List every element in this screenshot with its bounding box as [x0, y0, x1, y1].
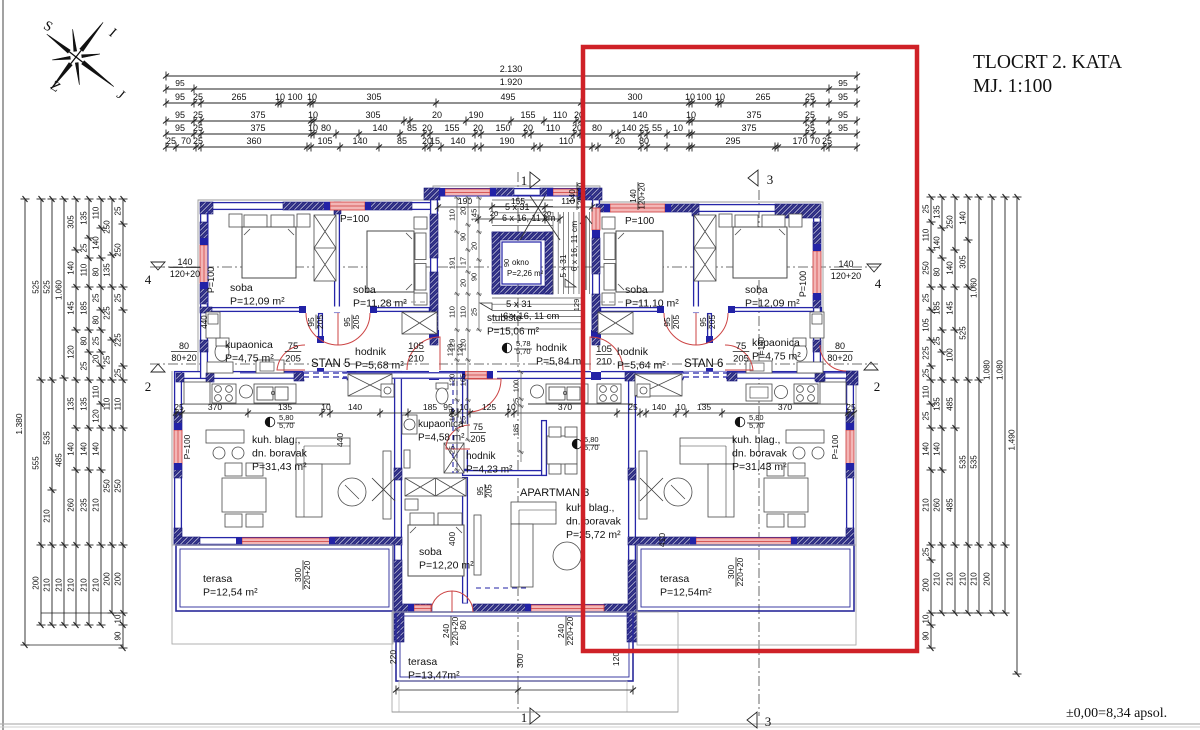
svg-text:P=100: P=100	[206, 267, 216, 293]
svg-text:410: 410	[657, 533, 667, 547]
svg-text:295: 295	[725, 136, 740, 146]
svg-text:375: 375	[746, 110, 761, 120]
svg-text:10: 10	[308, 110, 318, 120]
svg-text:135: 135	[278, 402, 292, 412]
svg-text:185: 185	[448, 409, 457, 422]
svg-text:440: 440	[335, 433, 345, 447]
svg-text:5,70: 5,70	[749, 421, 764, 430]
svg-text:25: 25	[922, 293, 931, 302]
svg-text:terasa: terasa	[408, 656, 437, 668]
svg-text:125: 125	[482, 402, 496, 412]
svg-text:P=4,58 m²: P=4,58 m²	[418, 433, 465, 444]
svg-text:250: 250	[103, 220, 112, 234]
svg-text:P=12,54m²: P=12,54m²	[660, 587, 712, 599]
svg-text:140: 140	[838, 259, 853, 269]
svg-text:1.920: 1.920	[500, 77, 523, 87]
svg-text:P=4,23 m²: P=4,23 m²	[466, 465, 513, 476]
svg-text:dn. boravak: dn. boravak	[732, 448, 788, 460]
svg-text:300: 300	[515, 654, 525, 668]
svg-text:kuh. blag.,: kuh. blag.,	[252, 434, 300, 446]
svg-text:535: 535	[959, 455, 968, 469]
svg-text:±0,00=8,34 apsol.: ±0,00=8,34 apsol.	[1066, 706, 1167, 721]
svg-text:2.130: 2.130	[500, 64, 523, 74]
svg-text:525: 525	[32, 280, 41, 294]
svg-text:25: 25	[114, 368, 123, 377]
svg-text:210: 210	[55, 578, 64, 592]
svg-text:1: 1	[521, 173, 528, 188]
svg-text:soba: soba	[625, 284, 648, 296]
svg-text:okno: okno	[512, 258, 530, 267]
svg-text:25: 25	[922, 204, 931, 213]
svg-text:P=31,43 m²: P=31,43 m²	[732, 461, 787, 473]
svg-text:85: 85	[407, 123, 417, 133]
svg-text:25: 25	[103, 355, 112, 364]
svg-text:265: 265	[231, 92, 246, 102]
svg-text:P=25,72 m²: P=25,72 m²	[566, 529, 621, 541]
svg-text:90: 90	[459, 233, 468, 241]
svg-text:305: 305	[366, 92, 381, 102]
svg-text:360: 360	[246, 136, 261, 146]
svg-text:485: 485	[946, 397, 955, 411]
svg-text:185: 185	[512, 424, 521, 437]
svg-text:200: 200	[983, 572, 992, 586]
svg-text:90: 90	[922, 631, 931, 640]
svg-text:220: 220	[388, 650, 398, 664]
svg-text:hodnik: hodnik	[617, 346, 649, 358]
svg-text:1.080: 1.080	[996, 359, 1005, 380]
svg-text:100: 100	[512, 380, 521, 393]
svg-text:145: 145	[946, 301, 955, 315]
svg-text:90: 90	[502, 259, 511, 267]
svg-text:10: 10	[673, 123, 683, 133]
svg-text:165: 165	[459, 374, 468, 387]
svg-text:140: 140	[177, 257, 192, 267]
svg-text:80: 80	[92, 315, 101, 324]
svg-text:5,70: 5,70	[279, 421, 294, 430]
svg-text:25: 25	[933, 336, 942, 345]
svg-text:300: 300	[627, 92, 642, 102]
svg-text:95: 95	[175, 78, 185, 88]
svg-text:P=5,64 m²: P=5,64 m²	[617, 360, 666, 372]
svg-text:190: 190	[499, 136, 514, 146]
svg-text:20: 20	[459, 207, 468, 215]
svg-text:105: 105	[408, 341, 424, 352]
svg-text:75: 75	[288, 341, 299, 352]
svg-text:210: 210	[933, 572, 942, 586]
svg-text:250: 250	[946, 215, 955, 229]
svg-text:305: 305	[365, 110, 380, 120]
svg-text:265: 265	[755, 92, 770, 102]
svg-text:APARTMAN 3: APARTMAN 3	[520, 487, 589, 499]
svg-text:170: 170	[792, 136, 807, 146]
svg-text:STAN 6: STAN 6	[684, 358, 723, 370]
svg-text:MJ. 1:100: MJ. 1:100	[973, 76, 1052, 97]
svg-text:20: 20	[523, 123, 533, 133]
svg-text:25: 25	[193, 123, 203, 133]
svg-text:110: 110	[92, 385, 101, 398]
svg-text:17: 17	[459, 257, 468, 265]
svg-text:250: 250	[114, 479, 123, 493]
svg-text:95: 95	[175, 92, 185, 102]
svg-text:140: 140	[632, 110, 647, 120]
svg-text:25: 25	[639, 123, 649, 133]
svg-text:135: 135	[933, 397, 942, 411]
svg-text:25: 25	[805, 92, 815, 102]
svg-text:110: 110	[103, 397, 112, 410]
svg-text:25: 25	[92, 336, 101, 345]
svg-text:10: 10	[922, 614, 931, 623]
svg-text:205: 205	[707, 315, 717, 329]
svg-text:100: 100	[696, 92, 711, 102]
svg-text:5,70: 5,70	[584, 443, 599, 452]
svg-text:120: 120	[456, 344, 465, 357]
svg-text:220+20: 220+20	[302, 560, 312, 589]
svg-text:10: 10	[686, 110, 696, 120]
svg-text:25: 25	[846, 402, 856, 412]
svg-text:110: 110	[459, 306, 468, 318]
svg-text:110: 110	[448, 306, 457, 318]
svg-text:5 x 31: 5 x 31	[558, 254, 568, 277]
svg-text:hodnik: hodnik	[355, 346, 387, 358]
svg-text:145: 145	[67, 301, 76, 315]
svg-text:225: 225	[922, 346, 931, 360]
svg-text:85: 85	[397, 136, 407, 146]
svg-text:135: 135	[80, 211, 89, 225]
svg-text:185: 185	[80, 301, 89, 315]
svg-text:185: 185	[423, 402, 437, 412]
svg-text:25: 25	[470, 308, 479, 316]
svg-text:80: 80	[92, 267, 101, 276]
svg-text:25: 25	[114, 206, 123, 215]
svg-text:110: 110	[922, 228, 931, 241]
svg-text:205: 205	[470, 434, 485, 444]
svg-text:135: 135	[80, 397, 89, 411]
svg-text:5 x 31: 5 x 31	[506, 299, 532, 310]
svg-text:hodnik: hodnik	[466, 451, 496, 462]
svg-text:140: 140	[933, 442, 942, 456]
svg-text:10: 10	[676, 402, 686, 412]
svg-text:P=100: P=100	[625, 216, 655, 227]
svg-text:485: 485	[55, 453, 64, 467]
svg-text:20: 20	[473, 123, 483, 133]
svg-text:25: 25	[193, 92, 203, 102]
svg-text:2: 2	[874, 379, 881, 394]
svg-text:80: 80	[639, 136, 649, 146]
svg-text:TLOCRT 2. KATA: TLOCRT 2. KATA	[973, 52, 1122, 73]
svg-text:375: 375	[741, 123, 756, 133]
svg-text:1.490: 1.490	[1007, 429, 1017, 451]
svg-text:1.380: 1.380	[14, 413, 24, 435]
svg-text:70: 70	[181, 136, 191, 146]
svg-text:25: 25	[193, 136, 203, 146]
svg-text:140: 140	[372, 123, 387, 133]
svg-text:135: 135	[103, 263, 112, 277]
svg-text:140: 140	[621, 123, 636, 133]
svg-text:210: 210	[959, 572, 968, 586]
svg-text:200: 200	[103, 572, 112, 586]
svg-text:140: 140	[67, 261, 76, 275]
svg-text:155: 155	[511, 196, 525, 206]
svg-text:110: 110	[553, 110, 567, 120]
svg-text:3: 3	[765, 714, 772, 729]
svg-text:80: 80	[80, 336, 89, 345]
svg-text:140: 140	[959, 211, 968, 225]
svg-text:P=2,26 m²: P=2,26 m²	[507, 269, 544, 278]
svg-text:140: 140	[450, 136, 465, 146]
svg-text:25: 25	[512, 398, 521, 406]
svg-text:185: 185	[933, 301, 942, 315]
svg-text:105: 105	[596, 344, 612, 355]
svg-text:95: 95	[838, 123, 848, 133]
svg-text:hodnik: hodnik	[536, 342, 568, 354]
svg-text:200: 200	[32, 576, 41, 590]
svg-text:dn. boravak: dn. boravak	[566, 516, 622, 528]
svg-text:10: 10	[114, 614, 123, 623]
svg-text:95: 95	[838, 110, 848, 120]
svg-text:95: 95	[175, 123, 185, 133]
svg-text:P=100: P=100	[182, 434, 192, 459]
svg-text:110: 110	[922, 385, 931, 398]
svg-text:485: 485	[946, 498, 955, 512]
svg-text:120: 120	[67, 345, 76, 359]
svg-text:20: 20	[615, 136, 625, 146]
svg-text:25: 25	[805, 110, 815, 120]
svg-text:100: 100	[287, 92, 302, 102]
svg-text:105: 105	[317, 136, 332, 146]
svg-text:25: 25	[114, 293, 123, 302]
svg-text:225: 225	[114, 333, 123, 347]
svg-text:370: 370	[778, 402, 792, 412]
svg-text:110: 110	[80, 263, 89, 276]
svg-text:3: 3	[767, 172, 774, 187]
svg-text:205: 205	[733, 354, 749, 365]
svg-text:120+20: 120+20	[831, 271, 861, 281]
svg-text:P=11,28 m²: P=11,28 m²	[353, 298, 407, 310]
svg-text:205: 205	[285, 354, 301, 365]
svg-text:P=11,10 m²: P=11,10 m²	[625, 298, 679, 310]
svg-text:dn. boravak: dn. boravak	[252, 448, 308, 460]
svg-text:4: 4	[145, 272, 152, 287]
svg-text:305: 305	[959, 255, 968, 269]
svg-text:110: 110	[448, 209, 457, 221]
svg-text:155: 155	[520, 110, 535, 120]
svg-text:200: 200	[922, 578, 931, 592]
svg-text:370: 370	[208, 402, 222, 412]
svg-text:80: 80	[592, 123, 602, 133]
svg-text:25: 25	[448, 446, 457, 454]
svg-text:145: 145	[470, 209, 479, 222]
svg-text:225: 225	[103, 306, 112, 320]
svg-text:129: 129	[446, 344, 455, 357]
svg-text:90: 90	[114, 631, 123, 640]
svg-text:P=12,20 m²: P=12,20 m²	[419, 560, 474, 572]
svg-text:25: 25	[166, 136, 176, 146]
svg-text:210: 210	[43, 509, 52, 523]
svg-text:220+20: 220+20	[565, 616, 575, 645]
svg-text:STAN 5: STAN 5	[311, 358, 350, 370]
svg-text:210: 210	[596, 357, 612, 368]
svg-text:P=100: P=100	[830, 434, 840, 459]
svg-text:25: 25	[193, 110, 203, 120]
svg-text:25: 25	[174, 402, 184, 412]
svg-text:110: 110	[114, 397, 123, 410]
svg-text:80+20: 80+20	[171, 353, 196, 363]
svg-text:1.060: 1.060	[970, 277, 979, 298]
svg-text:210: 210	[922, 498, 931, 512]
svg-text:soba: soba	[353, 284, 376, 296]
svg-text:155: 155	[444, 123, 459, 133]
svg-text:205: 205	[485, 484, 494, 498]
svg-text:P=100: P=100	[340, 214, 370, 225]
svg-text:80+20: 80+20	[827, 353, 852, 363]
svg-text:260: 260	[933, 498, 942, 512]
svg-text:95: 95	[175, 110, 185, 120]
svg-text:25: 25	[80, 243, 89, 252]
svg-text:120: 120	[611, 652, 621, 666]
svg-text:soba: soba	[230, 282, 253, 294]
svg-text:210: 210	[946, 572, 955, 586]
svg-text:140: 140	[92, 236, 101, 250]
svg-text:P=12,09 m²: P=12,09 m²	[745, 298, 800, 310]
svg-text:120: 120	[92, 409, 101, 423]
svg-text:110: 110	[546, 123, 560, 133]
svg-text:80: 80	[933, 267, 942, 276]
svg-text:soba: soba	[745, 284, 768, 296]
svg-text:210: 210	[67, 578, 76, 592]
svg-text:140: 140	[946, 261, 955, 275]
svg-text:25: 25	[92, 293, 101, 302]
svg-text:P=15,06 m²: P=15,06 m²	[487, 327, 540, 338]
svg-text:kupaonica: kupaonica	[225, 339, 273, 351]
svg-text:190: 190	[468, 110, 483, 120]
svg-text:20: 20	[459, 279, 468, 287]
svg-text:235: 235	[80, 498, 89, 512]
svg-text:555: 555	[32, 456, 41, 470]
svg-text:210: 210	[408, 354, 424, 365]
svg-text:440: 440	[200, 315, 209, 329]
svg-text:370: 370	[558, 402, 572, 412]
svg-text:105: 105	[922, 318, 931, 332]
svg-text:P=5,84 m²: P=5,84 m²	[536, 356, 585, 368]
svg-text:375: 375	[250, 110, 265, 120]
svg-text:200: 200	[114, 572, 123, 586]
svg-text:110: 110	[92, 206, 101, 219]
svg-text:10: 10	[715, 92, 725, 102]
svg-text:95: 95	[838, 78, 848, 88]
svg-text:25: 25	[922, 368, 931, 377]
svg-text:P=12,09 m²: P=12,09 m²	[230, 296, 285, 308]
svg-text:25: 25	[822, 136, 832, 146]
svg-text:140: 140	[92, 442, 101, 456]
svg-text:525: 525	[43, 280, 52, 294]
svg-text:140: 140	[922, 442, 931, 456]
svg-text:120+20: 120+20	[638, 182, 647, 209]
svg-text:191: 191	[448, 257, 457, 270]
svg-text:70: 70	[810, 136, 820, 146]
svg-text:210: 210	[92, 498, 101, 512]
svg-text:kuh. blag.,: kuh. blag.,	[566, 502, 614, 514]
svg-text:20: 20	[470, 242, 479, 250]
svg-text:10: 10	[459, 402, 469, 412]
svg-text:5,70: 5,70	[516, 347, 531, 356]
svg-text:535: 535	[970, 455, 979, 469]
svg-text:80: 80	[835, 341, 845, 351]
svg-text:210: 210	[92, 578, 101, 592]
svg-text:140: 140	[352, 136, 367, 146]
svg-text:210: 210	[970, 572, 979, 586]
svg-text:4: 4	[875, 276, 882, 291]
svg-text:P=12,54 m²: P=12,54 m²	[203, 587, 258, 599]
svg-text:20: 20	[92, 354, 101, 363]
svg-text:135: 135	[933, 205, 942, 219]
svg-text:20: 20	[432, 110, 442, 120]
svg-text:P=5,68 m²: P=5,68 m²	[355, 360, 404, 372]
svg-text:220+20: 220+20	[735, 557, 745, 586]
svg-text:250: 250	[114, 243, 123, 257]
svg-text:140: 140	[67, 442, 76, 456]
svg-text:110: 110	[561, 196, 575, 206]
svg-text:150: 150	[495, 123, 510, 133]
svg-text:120: 120	[448, 374, 457, 387]
svg-text:140: 140	[80, 442, 89, 456]
svg-text:120+20: 120+20	[170, 269, 200, 279]
svg-text:20: 20	[543, 209, 551, 218]
svg-text:25: 25	[922, 411, 931, 420]
svg-text:140: 140	[348, 402, 362, 412]
svg-text:210: 210	[80, 578, 89, 592]
svg-text:205: 205	[315, 315, 325, 329]
svg-text:260: 260	[67, 498, 76, 512]
svg-text:1.080: 1.080	[983, 359, 992, 380]
svg-text:10: 10	[321, 402, 331, 412]
svg-text:135: 135	[697, 402, 711, 412]
svg-text:6 x 16, 11 cm: 6 x 16, 11 cm	[503, 311, 559, 322]
svg-text:20: 20	[572, 123, 582, 133]
svg-text:75: 75	[736, 341, 747, 352]
svg-text:15: 15	[430, 136, 440, 146]
svg-text:140: 140	[652, 402, 666, 412]
svg-text:10: 10	[307, 92, 317, 102]
svg-text:75: 75	[473, 422, 483, 432]
svg-text:soba: soba	[419, 546, 442, 558]
svg-text:135: 135	[67, 397, 76, 411]
svg-text:10: 10	[685, 92, 695, 102]
svg-text:25: 25	[80, 361, 89, 370]
svg-text:100: 100	[946, 348, 955, 362]
svg-text:95: 95	[838, 92, 848, 102]
svg-text:80: 80	[458, 620, 468, 630]
svg-text:2: 2	[145, 379, 152, 394]
svg-text:205: 205	[671, 315, 681, 329]
svg-text:10: 10	[308, 123, 318, 133]
svg-text:20: 20	[422, 123, 432, 133]
svg-text:1.060: 1.060	[55, 279, 64, 300]
svg-text:kuh. blag.,: kuh. blag.,	[732, 434, 780, 446]
svg-text:P=100: P=100	[798, 271, 808, 297]
svg-text:535: 535	[43, 431, 52, 445]
svg-text:250: 250	[922, 261, 931, 275]
svg-text:25: 25	[922, 547, 931, 556]
svg-text:90: 90	[470, 273, 479, 281]
svg-text:terasa: terasa	[660, 573, 689, 585]
svg-text:80: 80	[321, 123, 331, 133]
svg-text:210: 210	[43, 578, 52, 592]
svg-text:129: 129	[572, 299, 581, 312]
svg-text:=140: =140	[757, 336, 766, 355]
svg-text:terasa: terasa	[203, 573, 232, 585]
svg-text:250: 250	[103, 479, 112, 493]
svg-text:305: 305	[67, 215, 76, 229]
